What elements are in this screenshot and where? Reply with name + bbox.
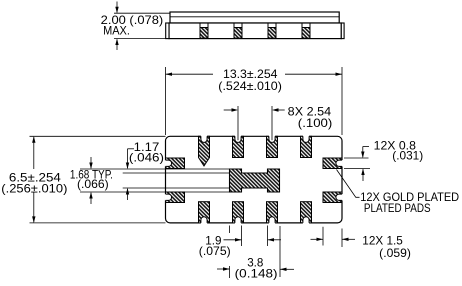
- top pad 2: [233, 136, 244, 157]
- svg-text:(.059): (.059): [379, 246, 411, 260]
- castellation notches bottom edge: [201, 217, 309, 224]
- left end tab (side view): [166, 23, 169, 39]
- extension lines below (center pad dims): [230, 226, 343, 279]
- svg-text:(.524±.010): (.524±.010): [218, 79, 282, 93]
- package lid (side view): [170, 12, 339, 23]
- package outline (bottom view): [166, 136, 343, 223]
- extension lines for center pad (left side): [80, 169, 230, 192]
- left pad lower: [166, 192, 185, 203]
- castellation pad 2 (side view): [234, 23, 242, 38]
- castellation notches left edge: [165, 160, 172, 200]
- top pad 4: [301, 136, 312, 157]
- castellation pad 4 (side view): [302, 23, 310, 38]
- leader 12X GOLD PLATED PLATED PADS: [337, 170, 360, 198]
- svg-text:MAX.: MAX.: [103, 23, 130, 37]
- dimension 3.8 (0.148) center pad overall width: [217, 268, 294, 270]
- svg-text:(.100): (.100): [298, 116, 333, 130]
- svg-text:PLATED PADS: PLATED PADS: [364, 201, 431, 215]
- castellation pad 1 (side view): [200, 23, 208, 38]
- dimension 1.17 (.046): [128, 149, 135, 200]
- castellation pad 3 (side view): [268, 23, 276, 38]
- castellation notches top edge: [201, 136, 309, 143]
- dimension 12X 0.8 (.031) right pad width: [344, 147, 370, 182]
- right pad lower: [323, 192, 342, 203]
- castellation notches right edge: [336, 160, 343, 200]
- dimension 8X 2.54 pad pitch: [224, 106, 285, 140]
- dimension 6.5±.254 overall height: [30, 136, 166, 223]
- svg-text:(.031): (.031): [392, 149, 423, 163]
- svg-text:(.256±.010): (.256±.010): [1, 182, 67, 196]
- center dog-bone pad: [230, 169, 280, 192]
- bottom pad 1: [199, 202, 210, 223]
- dimension 2.00 (.078) MAX. height of side view: [114, 2, 170, 51]
- right end tab (side view): [341, 23, 344, 39]
- pad 1 top-left pin1 marker (pointed): [199, 136, 210, 166]
- svg-text:(0.148): (0.148): [235, 267, 278, 281]
- dimension 12X 1.5 (.059) pad length: [311, 238, 356, 240]
- bottom pad 4: [301, 202, 312, 223]
- right pad upper: [323, 158, 342, 169]
- dimension 1.68 TYP. (.066): [90, 157, 92, 204]
- bottom pad 2: [233, 202, 244, 223]
- package body (side view): [169, 23, 341, 39]
- svg-text:(.066): (.066): [77, 177, 109, 191]
- top pad 3: [267, 136, 278, 157]
- svg-text:(.046): (.046): [129, 151, 164, 165]
- dimension 13.3±.254 overall width: [166, 67, 343, 135]
- dimension 1.9 (.075) center bar width: [224, 239, 282, 241]
- bottom pad 3: [267, 202, 278, 223]
- left pad upper: [166, 158, 185, 169]
- svg-text:(.075): (.075): [199, 244, 231, 258]
